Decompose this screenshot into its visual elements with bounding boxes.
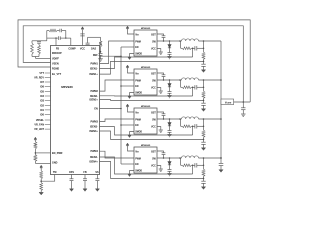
svg-text:PWM3: PWM3 bbox=[90, 121, 98, 124]
svg-text:PWM1: PWM1 bbox=[90, 63, 98, 66]
svg-text:IO1: IO1 bbox=[40, 109, 45, 112]
svg-text:EN: EN bbox=[94, 108, 98, 111]
svg-text:ISEN3-: ISEN3- bbox=[90, 126, 98, 129]
svg-text:MP86905: MP86905 bbox=[141, 28, 151, 30]
svg-text:FB: FB bbox=[83, 171, 86, 174]
svg-text:IO3: IO3 bbox=[40, 99, 45, 102]
svg-text:BST: BST bbox=[151, 152, 156, 154]
svg-text:VCC: VCC bbox=[151, 165, 156, 167]
svg-text:ISEN3+: ISEN3+ bbox=[89, 130, 98, 133]
svg-text:SMOD: SMOD bbox=[135, 92, 142, 94]
svg-text:ISEN4-: ISEN4- bbox=[90, 156, 98, 159]
svg-text:IO5: IO5 bbox=[40, 90, 45, 93]
svg-text:SMOD: SMOD bbox=[135, 131, 142, 133]
svg-text:Vcore: Vcore bbox=[225, 102, 232, 104]
svg-text:PWM: PWM bbox=[135, 41, 141, 43]
svg-text:En_VTT: En_VTT bbox=[52, 73, 62, 76]
svg-text:IO2: IO2 bbox=[40, 104, 45, 107]
svg-text:VR_RDY: VR_RDY bbox=[34, 76, 44, 79]
svg-text:GND: GND bbox=[52, 161, 58, 164]
svg-text:MP86905: MP86905 bbox=[141, 106, 151, 108]
svg-text:OAS: OAS bbox=[91, 48, 97, 51]
svg-text:IDROOP: IDROOP bbox=[52, 52, 62, 55]
svg-text:VSEN: VSEN bbox=[52, 62, 59, 65]
svg-text:VDIFF: VDIFF bbox=[52, 57, 60, 60]
svg-text:EN: EN bbox=[135, 47, 139, 49]
svg-text:Vin: Vin bbox=[135, 74, 139, 76]
svg-text:VR_FAN: VR_FAN bbox=[34, 123, 44, 126]
svg-text:BST: BST bbox=[151, 35, 156, 37]
svg-text:FB: FB bbox=[56, 48, 59, 51]
svg-text:VCC: VCC bbox=[80, 48, 85, 51]
svg-text:VR_HOT: VR_HOT bbox=[34, 128, 44, 131]
svg-text:IO0: IO0 bbox=[40, 113, 45, 116]
svg-text:MP86905: MP86905 bbox=[141, 67, 151, 69]
svg-text:VRSEL: VRSEL bbox=[36, 119, 45, 122]
svg-text:PWM: PWM bbox=[135, 80, 141, 82]
svg-text:EN: EN bbox=[135, 125, 139, 127]
svg-text:PWM: PWM bbox=[135, 119, 141, 121]
svg-text:EN: EN bbox=[135, 164, 139, 166]
svg-text:IO7: IO7 bbox=[40, 81, 45, 84]
svg-text:PWM2: PWM2 bbox=[90, 90, 98, 93]
svg-text:VCC: VCC bbox=[151, 87, 156, 89]
svg-text:MP86905: MP86905 bbox=[141, 145, 151, 147]
svg-text:REF: REF bbox=[93, 54, 98, 57]
svg-text:VCC: VCC bbox=[151, 48, 156, 50]
svg-text:Vin: Vin bbox=[135, 113, 139, 115]
svg-text:ISEN4+: ISEN4+ bbox=[89, 160, 98, 163]
svg-text:IO6: IO6 bbox=[40, 86, 45, 89]
svg-text:SS: SS bbox=[95, 171, 99, 174]
svg-text:SMOD: SMOD bbox=[135, 53, 142, 55]
svg-text:ISEN2+: ISEN2+ bbox=[89, 99, 98, 102]
svg-text:ISEN1+: ISEN1+ bbox=[89, 73, 98, 76]
svg-text:Vin: Vin bbox=[135, 152, 139, 154]
svg-text:EN_PWR: EN_PWR bbox=[52, 152, 63, 155]
svg-text:ISEN2-: ISEN2- bbox=[90, 95, 98, 98]
svg-text:PWM4: PWM4 bbox=[90, 150, 98, 153]
svg-text:PWM: PWM bbox=[135, 158, 141, 160]
svg-text:MP2930: MP2930 bbox=[61, 85, 73, 89]
svg-text:TM: TM bbox=[53, 171, 57, 174]
svg-text:EN: EN bbox=[135, 86, 139, 88]
svg-text:OFS: OFS bbox=[69, 171, 74, 174]
svg-text:BST: BST bbox=[151, 74, 156, 76]
svg-text:ISEN1-: ISEN1- bbox=[90, 68, 98, 71]
svg-text:COMP: COMP bbox=[68, 48, 76, 51]
svg-text:VTT: VTT bbox=[39, 72, 44, 75]
svg-text:SMOD: SMOD bbox=[135, 170, 142, 172]
svg-text:IO4: IO4 bbox=[40, 95, 45, 98]
svg-text:BST: BST bbox=[151, 113, 156, 115]
svg-text:RGND: RGND bbox=[52, 67, 59, 70]
svg-text:VCC: VCC bbox=[151, 126, 156, 128]
svg-text:Vin: Vin bbox=[135, 35, 139, 37]
